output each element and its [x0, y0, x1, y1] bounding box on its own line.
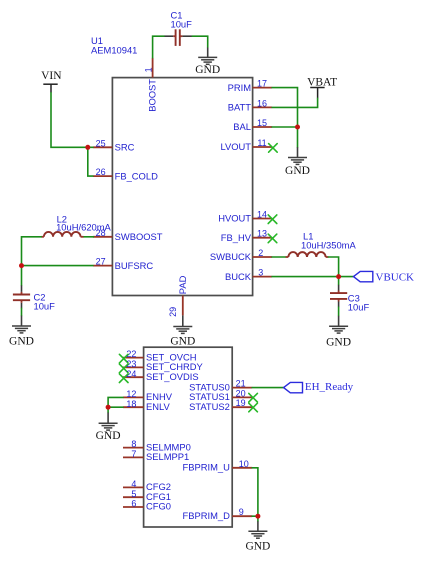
pin 29 PAD [168, 275, 188, 317]
ground FBPRIM-gnd [245, 531, 270, 552]
pin 15 BAL [233, 118, 272, 132]
pin 1 BOOST [143, 58, 157, 112]
pin 17 PRIM [228, 79, 273, 93]
svg-text:SRC: SRC [115, 142, 135, 153]
junction BUFSRC node [19, 263, 24, 268]
svg-text:PAD: PAD [177, 275, 188, 294]
pin 3 BUCK [225, 268, 272, 282]
pin 18 ENLV [123, 399, 171, 412]
wire SWBUCK to L1 [272, 256, 286, 258]
inductor L2 leads [81, 236, 84, 238]
pin 4 CFG2 [123, 479, 171, 492]
svg-text:5: 5 [131, 489, 136, 499]
svg-text:ENLV: ENLV [146, 401, 171, 412]
svg-text:10uH/350mA: 10uH/350mA [301, 239, 356, 250]
svg-text:10uF: 10uF [34, 301, 56, 312]
ground C2-gnd [9, 326, 34, 348]
svg-text:6: 6 [131, 499, 136, 509]
svg-text:GND: GND [170, 336, 195, 348]
pin 26 FB_COLD [93, 167, 158, 181]
junction EN node [106, 405, 111, 410]
svg-text:GND: GND [285, 165, 310, 177]
svg-text:9: 9 [239, 507, 244, 517]
svg-text:13: 13 [257, 229, 267, 239]
svg-text:25: 25 [96, 138, 106, 148]
svg-text:17: 17 [257, 79, 267, 89]
wire junction down to gnd [257, 516, 259, 521]
capacitor C2 leads [21, 285, 23, 292]
svg-text:EH_Ready: EH_Ready [305, 381, 354, 393]
wire BOOST vertical to C1 [153, 36, 165, 58]
pin 23 SET_CHRDY [123, 359, 204, 372]
wire FBPRIM gnd stub [257, 521, 259, 531]
svg-text:GND: GND [96, 430, 121, 442]
svg-text:29: 29 [168, 307, 178, 317]
pin 21 STATUS0 [189, 379, 252, 393]
svg-text:GND: GND [326, 337, 351, 349]
svg-text:FB_COLD: FB_COLD [115, 170, 158, 181]
svg-text:12: 12 [126, 389, 136, 399]
pin 7 SELMPP1 [123, 449, 189, 462]
pin 2 SWBUCK [210, 248, 272, 262]
pin 27 BUFSRC [93, 257, 153, 271]
no-connect SET_OVCH [119, 354, 128, 363]
svg-text:3: 3 [258, 268, 263, 278]
svg-text:26: 26 [96, 167, 106, 177]
svg-text:19: 19 [236, 398, 246, 408]
svg-text:10uF: 10uF [348, 301, 370, 312]
svg-text:4: 4 [131, 479, 136, 489]
capacitor C1 leads [165, 35, 174, 37]
pin 19 STATUS2 [189, 398, 252, 412]
svg-text:FBPRIM_D: FBPRIM_D [182, 510, 230, 521]
svg-text:15: 15 [257, 118, 267, 128]
pin 16 BATT [228, 98, 272, 112]
no-connect FB_HV [268, 234, 277, 243]
wire junction down to FB_COLD [88, 147, 93, 176]
pin 22 SET_OVCH [123, 349, 197, 362]
wire junction down to gnd [107, 407, 109, 412]
wire SWBOOST to L2 [84, 236, 94, 238]
svg-text:PRIM: PRIM [228, 82, 252, 93]
ground C3-gnd [326, 326, 351, 348]
no-connect SET_CHRDY [119, 364, 128, 373]
svg-text:FB_HV: FB_HV [221, 232, 252, 243]
junction FBPRIM node [255, 514, 260, 519]
no-connect LVOUT [269, 144, 278, 153]
wire C3 to gnd [338, 307, 340, 316]
junction SRC node [85, 145, 90, 150]
svg-text:FBPRIM_U: FBPRIM_U [182, 462, 230, 473]
pin 13 FB_HV [221, 229, 272, 243]
wire C1 right to gnd [192, 36, 207, 47]
svg-text:VBUCK: VBUCK [376, 271, 415, 283]
svg-text:10uF: 10uF [171, 19, 193, 30]
wire junction down to gnd [297, 127, 299, 147]
svg-text:SWBOOST: SWBOOST [115, 231, 163, 242]
wire junction to SRC pin [88, 146, 93, 148]
svg-text:27: 27 [96, 257, 106, 267]
svg-text:18: 18 [126, 399, 136, 409]
pin 8 SELMMP0 [123, 439, 191, 452]
ground EN-gnd [96, 423, 121, 442]
ground C1-gnd [195, 57, 220, 76]
svg-text:SELMPP1: SELMPP1 [146, 451, 189, 462]
wire STATUS0 to EH_Ready label [252, 387, 283, 389]
pin 9 FBPRIM_D [182, 507, 252, 521]
svg-text:VBAT: VBAT [307, 76, 337, 88]
wire L2 left down to BUFSRC [22, 237, 42, 266]
pin 6 CFG0 [123, 499, 171, 512]
wire VIN down to SRC [51, 93, 88, 148]
pin 5 CFG1 [123, 489, 171, 502]
svg-text:8: 8 [131, 439, 136, 449]
svg-text:21: 21 [236, 379, 246, 389]
svg-text:20: 20 [236, 388, 246, 398]
svg-text:7: 7 [131, 449, 136, 459]
wire PAD gnd stub [182, 315, 184, 326]
svg-text:BAL: BAL [233, 121, 251, 132]
wire ENHV left [108, 397, 123, 407]
wire BUCK to VBUCK label [272, 276, 353, 278]
junction BAL node [295, 125, 300, 130]
capacitor C1 [176, 29, 180, 46]
svg-text:11: 11 [257, 138, 266, 148]
svg-text:BOOST: BOOST [147, 79, 158, 112]
IC U1 AEM10941 body (unit B) [144, 347, 233, 527]
power flag VBAT [307, 76, 337, 98]
wire ENLV to junction [108, 406, 123, 408]
wire PRIM right and down [272, 88, 297, 127]
pin 20 STATUS1 [189, 388, 252, 402]
wire C1 gnd stub [207, 48, 209, 58]
svg-text:2: 2 [258, 248, 263, 258]
svg-text:CFG0: CFG0 [146, 501, 171, 512]
capacitor C3 [330, 293, 347, 299]
no-connect STATUS2 [249, 403, 258, 412]
inductor L1 [288, 252, 325, 257]
svg-text:HVOUT: HVOUT [218, 213, 251, 224]
svg-text:AEM10941: AEM10941 [91, 45, 137, 56]
no-connect STATUS1 [249, 393, 258, 402]
wire EN gnd stub [107, 413, 109, 424]
ground PRIM-BAL-gnd [285, 158, 310, 177]
svg-text:BUFSRC: BUFSRC [115, 260, 154, 271]
global label VBUCK [354, 271, 415, 283]
wire junction down to C3 [338, 277, 340, 285]
svg-text:10: 10 [239, 459, 249, 469]
pin 12 ENHV [123, 389, 173, 402]
ground PAD-gnd [170, 327, 195, 348]
inductor L2 [44, 232, 81, 237]
wire junction down to C2 [21, 266, 23, 286]
svg-text:GND: GND [9, 336, 34, 348]
pin 14 HVOUT [218, 210, 272, 224]
global label EH_Ready [284, 381, 354, 393]
no-connect HVOUT [268, 215, 277, 224]
wire BAL to junction [272, 126, 297, 128]
pin 10 FBPRIM_U [182, 459, 252, 473]
svg-text:GND: GND [195, 64, 220, 76]
no-connect SET_OVDIS [119, 374, 128, 383]
svg-text:10uH/620mA: 10uH/620mA [56, 222, 111, 233]
pin 28 SWBOOST [93, 228, 163, 242]
wire FBPRIM_D to junction [252, 515, 258, 517]
svg-text:BUCK: BUCK [225, 271, 252, 282]
wire C2 gnd stub [21, 316, 23, 326]
svg-text:14: 14 [257, 210, 267, 220]
wire C2 to gnd [21, 308, 23, 315]
svg-text:LVOUT: LVOUT [220, 141, 251, 152]
power flag VIN [41, 70, 62, 93]
capacitor C2 [13, 295, 30, 301]
inductor L1 leads [286, 256, 289, 258]
svg-text:1: 1 [143, 67, 153, 72]
wire PRIM-BAL gnd stub [297, 147, 299, 157]
capacitor C3 leads [338, 285, 340, 291]
pin 24 SET_OVDIS [123, 369, 199, 382]
wire C3 gnd stub [338, 316, 340, 326]
svg-text:SET_OVDIS: SET_OVDIS [146, 371, 199, 382]
wire junction to BUFSRC pin [22, 265, 93, 267]
wire FBPRIM_U right and down [252, 468, 258, 516]
pin 11 LVOUT [220, 138, 272, 152]
svg-text:BATT: BATT [228, 102, 252, 113]
svg-text:STATUS2: STATUS2 [189, 401, 230, 412]
pin 25 SRC [93, 138, 135, 152]
svg-text:SWBUCK: SWBUCK [210, 251, 252, 262]
wire L1 right down to BUCK [328, 257, 338, 277]
junction BUCK node [336, 274, 341, 279]
IC U1 AEM10941 body (unit A) [112, 78, 252, 296]
wire BATT to VBAT [272, 98, 318, 107]
svg-text:16: 16 [257, 98, 267, 108]
svg-text:VIN: VIN [41, 70, 62, 82]
svg-text:GND: GND [245, 541, 270, 553]
